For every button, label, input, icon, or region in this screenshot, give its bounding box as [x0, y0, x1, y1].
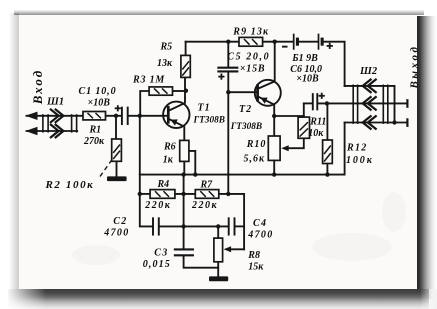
svg-text:ГТ308В: ГТ308В — [230, 122, 262, 132]
svg-text:10к: 10к — [308, 128, 324, 139]
svg-text:R12: R12 — [346, 142, 368, 153]
svg-text:R8: R8 — [247, 250, 260, 261]
svg-text:Т2: Т2 — [239, 104, 252, 115]
svg-text:×10В: ×10В — [296, 73, 319, 84]
svg-text:С4: С4 — [253, 218, 267, 229]
svg-text:Выход: Выход — [408, 44, 420, 89]
svg-text:С5 20,0: С5 20,0 — [227, 51, 270, 62]
svg-text:13к: 13к — [157, 58, 173, 69]
svg-text:Ш2: Ш2 — [359, 66, 378, 77]
svg-text:R6: R6 — [163, 142, 176, 153]
svg-text:R5: R5 — [160, 41, 173, 52]
svg-text:4700: 4700 — [247, 230, 273, 241]
svg-text:Б1 9В: Б1 9В — [291, 53, 318, 64]
svg-text:ГТ308В: ГТ308В — [193, 115, 225, 125]
svg-text:R11: R11 — [309, 117, 326, 128]
svg-text:R3 1М: R3 1М — [132, 75, 165, 86]
svg-text:4700: 4700 — [103, 227, 129, 238]
svg-text:С3: С3 — [154, 247, 168, 258]
svg-text:15к: 15к — [248, 262, 264, 273]
svg-text:0,015: 0,015 — [143, 259, 171, 270]
svg-text:R1: R1 — [89, 124, 102, 135]
svg-text:R9 13к: R9 13к — [232, 26, 269, 37]
svg-text:270к: 270к — [83, 136, 105, 147]
svg-text:Ш1: Ш1 — [46, 97, 64, 108]
svg-text:100к: 100к — [346, 155, 374, 166]
svg-text:R7: R7 — [200, 179, 214, 190]
svg-text:Вход: Вход — [30, 69, 45, 105]
svg-text:R10: R10 — [246, 139, 267, 150]
svg-text:С2: С2 — [113, 216, 127, 227]
svg-text:Т1: Т1 — [198, 102, 211, 113]
svg-text:R2 100к: R2 100к — [45, 179, 95, 191]
svg-text:1к: 1к — [163, 154, 174, 165]
svg-text:×15В: ×15В — [240, 63, 266, 74]
svg-text:5,6к: 5,6к — [244, 154, 266, 165]
svg-text:С1 10,0: С1 10,0 — [79, 86, 117, 97]
svg-text:R4: R4 — [157, 179, 170, 190]
svg-text:×10В: ×10В — [88, 97, 111, 108]
svg-text:220к: 220к — [191, 200, 218, 211]
svg-text:220к: 220к — [144, 200, 171, 211]
